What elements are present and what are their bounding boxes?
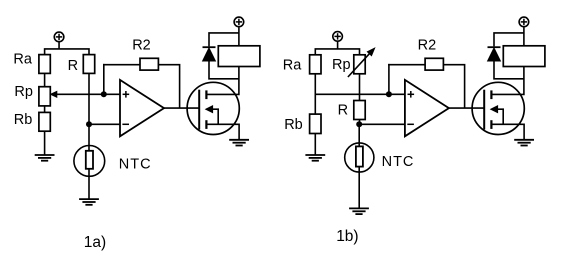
- svg-text:Ra: Ra: [13, 52, 32, 68]
- wire (1a R2 right): [158, 65, 179, 108]
- svg-text:Rb: Rb: [14, 112, 33, 128]
- svg-text:Rp: Rp: [332, 57, 351, 73]
- svg-text:R: R: [68, 58, 78, 74]
- op-amp (1a): [120, 80, 164, 136]
- resistor Rb (1b): [310, 114, 321, 133]
- svg-text:1a): 1a): [84, 234, 106, 251]
- resistor Ra (1a): [39, 55, 50, 74]
- op-amp + marking (1a): [123, 91, 130, 98]
- svg-text:R2: R2: [418, 38, 437, 54]
- wire (1b output to gate): [449, 107, 484, 109]
- thermistor NTC (1b) body: [356, 146, 363, 166]
- thermistor NTC (1a) body: [86, 151, 93, 169]
- svg-text:R2: R2: [132, 38, 151, 54]
- svg-text:1b): 1b): [336, 228, 358, 245]
- positive supply terminal 1a drain branch: [234, 17, 244, 27]
- diode D (1b) cathode bar: [488, 46, 501, 48]
- potentiometer Rp (1b): [354, 55, 365, 74]
- wire (1a R to - node): [88, 73, 90, 124]
- transistor Q (1b) body circle: [472, 82, 524, 134]
- wire (1a diode bottom branch): [209, 60, 239, 79]
- diode D (1a) cathode bar: [203, 46, 216, 48]
- wire (1b R to - node): [359, 120, 361, 125]
- positive supply terminal circuit 1a: [54, 32, 64, 42]
- wire (1b drain lead): [491, 67, 524, 95]
- wire (1a wiper to + node): [56, 93, 104, 95]
- wire (1b R2 right): [443, 65, 464, 108]
- wire (1a inverting input): [89, 123, 120, 125]
- resistor Ra (1b): [310, 55, 321, 74]
- thermistor NTC (1b) circle: [345, 143, 374, 172]
- op-amp (1b): [405, 80, 449, 136]
- transistor Q (1a) body circle: [187, 82, 239, 134]
- resistor R2 (1a): [140, 58, 158, 70]
- op-amp - marking (1b): [407, 123, 414, 125]
- wire (1b bulk to source): [497, 109, 504, 124]
- wire (1b R2 left): [388, 64, 425, 66]
- wire (1a supply stem): [58, 42, 60, 49]
- op-amp + marking (1b): [408, 91, 415, 98]
- ground circuit 1b NTC: [349, 208, 369, 214]
- wire (1b - node to NTC): [358, 125, 360, 208]
- svg-text:NTC: NTC: [382, 154, 415, 170]
- op-amp - marking (1a): [122, 123, 129, 125]
- wire (1b noninv input): [389, 93, 405, 95]
- potentiometer Rp wiper arrow (1a): [51, 91, 57, 97]
- svg-text:R: R: [338, 102, 348, 118]
- wire (1a Rb to ground): [44, 131, 46, 155]
- wire (1a output to gate): [164, 107, 199, 109]
- potentiometer Rp trim arrow (1b): [348, 53, 370, 77]
- wire (1a supply to load): [238, 27, 240, 46]
- resistor R (1a): [83, 55, 94, 74]
- wire (1a R2 left): [103, 64, 140, 66]
- resistor Rb (1a): [39, 112, 50, 131]
- wire (1a Ra to Rp): [44, 73, 46, 87]
- wire (1a feedback up): [103, 64, 105, 95]
- resistor R (1b): [354, 101, 365, 120]
- wire (1b diode top branch): [494, 33, 524, 47]
- svg-text:Rb: Rb: [284, 117, 303, 133]
- wire (1a diode top branch): [209, 33, 239, 47]
- positive supply terminal circuit 1b: [333, 32, 343, 42]
- svg-text:NTC: NTC: [119, 156, 152, 172]
- ground circuit 1b divider: [305, 155, 325, 161]
- wire (1b diode bottom branch): [494, 60, 524, 79]
- potentiometer Rp (1a): [39, 87, 50, 106]
- transistor Q (1b) source tick: [490, 120, 492, 129]
- transistor Q (1a) gate bar: [198, 90, 200, 130]
- load rectangle (1a): [218, 46, 260, 67]
- resistor R2 (1b): [425, 58, 443, 70]
- wire (1b supply to load): [523, 27, 525, 46]
- ground circuit 1a NTC: [79, 199, 99, 205]
- thermistor NTC (1a) circle: [74, 146, 105, 177]
- wire (1b Rp to R): [359, 74, 361, 101]
- wire (1a drain lead): [206, 67, 239, 95]
- wire (1b divider tap to + node): [315, 93, 389, 95]
- positive supply terminal 1b drain branch: [519, 17, 529, 27]
- node - input junction (1a): [86, 121, 92, 127]
- node + input junction (1b): [386, 91, 392, 97]
- wire (1b source lead): [491, 124, 524, 139]
- transistor Q (1a) bulk arrow: [206, 106, 213, 113]
- wire (1a - node to NTC): [88, 125, 90, 199]
- wire (1b supply stem): [337, 42, 339, 49]
- wire (1a bulk to source): [212, 109, 219, 124]
- wire (1b inverting input): [360, 123, 405, 125]
- wire (1a Rp to Rb): [44, 106, 46, 113]
- load rectangle (1b): [503, 46, 545, 67]
- ground 1b source: [514, 140, 534, 146]
- node + input junction (1a): [101, 91, 107, 97]
- wire (1b feedback up): [388, 64, 390, 95]
- wire (1b Ra to Rb): [314, 74, 316, 115]
- svg-text:Rp: Rp: [14, 84, 33, 100]
- wire (1a noninv input): [104, 93, 120, 95]
- svg-text:Ra: Ra: [283, 57, 302, 73]
- diode D (1b) anode triangle: [488, 48, 501, 61]
- wire (1a source lead): [206, 124, 239, 139]
- transistor Q (1b) gate bar: [483, 90, 485, 130]
- ground 1a source: [229, 140, 249, 146]
- transistor Q (1b) drain tick: [490, 90, 492, 99]
- wire (1b Rb to ground): [314, 134, 316, 155]
- ground circuit 1a divider: [35, 155, 55, 161]
- diode D (1a) anode triangle: [203, 48, 216, 61]
- node - input junction (1b): [356, 121, 362, 127]
- transistor Q (1a) source tick: [205, 120, 207, 129]
- wire (1b supply rail): [315, 49, 359, 55]
- transistor Q (1a) drain tick: [205, 90, 207, 99]
- wire (1a supply rail): [45, 49, 89, 55]
- transistor Q (1b) bulk arrow: [491, 106, 498, 113]
